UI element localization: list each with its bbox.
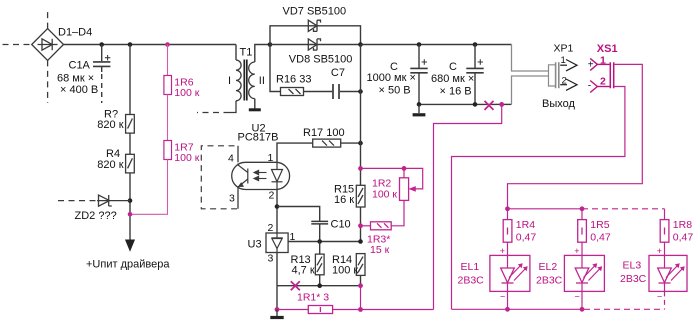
wire rectified rail to output [361, 44, 512, 46]
ground at U3 [276, 310, 278, 317]
wire secondary top lead [255, 45, 270, 63]
svg-text:+: + [500, 246, 505, 256]
svg-text:1: 1 [600, 54, 606, 66]
svg-text:100 к: 100 к [372, 189, 397, 201]
pin 1 XP1 [560, 60, 577, 71]
svg-text:2: 2 [269, 189, 275, 201]
wire magenta sense: XP1 minus to 1R1 line [434, 104, 502, 309]
node 1R2 tap (magenta) [358, 166, 363, 171]
wire R13 bottom lead [319, 275, 321, 286]
wire C10 bottom to junction line [319, 224, 321, 241]
resistor 1R6 [164, 76, 172, 95]
node secondary/VD junction [268, 42, 273, 47]
svg-text:D1–D4: D1–D4 [58, 27, 92, 39]
svg-text:1: 1 [290, 231, 296, 243]
node branch2 top [580, 206, 585, 211]
wire magenta down to 1R6 [167, 45, 169, 76]
U2 pin 1 lead to R17 [277, 143, 313, 162]
svg-text:VD8 SB5100: VD8 SB5100 [289, 54, 353, 66]
wire EL3 bottom dashed [664, 291, 666, 309]
wire R17 to main vertical [341, 142, 361, 144]
capacitor C1A [93, 45, 110, 104]
svg-text:2В3С: 2В3С [536, 275, 563, 287]
svg-text:2: 2 [600, 75, 606, 87]
pin 2 XP1 [560, 79, 577, 90]
U3 TL431 symbol [271, 233, 282, 253]
svg-text:1000 мк ×: 1000 мк × [367, 72, 416, 84]
node bottom cap1 [417, 102, 422, 107]
svg-text:1R1* 3: 1R1* 3 [297, 292, 329, 304]
wire U2pin2 to C10 [277, 207, 320, 222]
svg-text:R17 100: R17 100 [303, 127, 345, 139]
svg-text:680 мк ×: 680 мк × [431, 73, 474, 85]
svg-text:2В3С: 2В3С [620, 273, 647, 285]
LED module EL1 [490, 255, 530, 291]
wire 1R3 left to rail [361, 225, 371, 227]
svg-text:−: − [657, 292, 662, 302]
transformer T1 primary winding I [236, 60, 241, 101]
wire VD7 branch up and across [270, 26, 361, 45]
svg-text:+: + [574, 246, 579, 256]
wire 1R2 top lead [403, 168, 405, 177]
wire R14 bottom lead [360, 275, 362, 285]
U3 pin 3 lead down [276, 253, 278, 310]
U3 body [266, 233, 288, 253]
node branch1 bottom [505, 307, 510, 312]
svg-text:-: - [588, 80, 591, 91]
wire LED bottom bus solid [452, 308, 585, 310]
wire R? to R4 [129, 133, 131, 154]
bridge rectifier D1-D4 [32, 8, 64, 103]
svg-text:× 50 В: × 50 В [379, 85, 411, 97]
resistor R16 [281, 88, 304, 96]
arrow +U drive output [126, 240, 135, 250]
resistor 1R7 [164, 141, 172, 160]
node branch1 top [505, 206, 510, 211]
svg-text:+: + [657, 246, 662, 256]
svg-text:1: 1 [561, 55, 566, 66]
svg-text:× 400 В: × 400 В [60, 84, 98, 96]
svg-text:820 к: 820 к [97, 159, 123, 171]
svg-text:C1A: C1A [69, 60, 91, 72]
wire U3 ref line [288, 241, 360, 243]
svg-text:II: II [259, 75, 265, 87]
wire C7 to main vertical [340, 91, 361, 93]
resistor 1R4 [503, 209, 512, 256]
zener ZD2 [58, 195, 130, 206]
node junction C1A [99, 42, 104, 47]
node cap2 top [473, 42, 478, 47]
wire EL1 bottom [507, 291, 509, 309]
svg-text:1R5: 1R5 [590, 219, 609, 231]
LED module EL3 [649, 255, 687, 291]
node R17 right [358, 141, 363, 146]
node 1R6 top (magenta) [165, 42, 170, 47]
wire magenta R14 bottom to sense line [360, 286, 362, 310]
resistor R15 [356, 185, 365, 207]
resistor R14 [356, 254, 365, 276]
resistor R13 [315, 254, 324, 275]
wire R4 down to arrow [129, 173, 131, 241]
node C10/R13 junction [317, 239, 322, 244]
wire main vertical rail [360, 45, 362, 186]
svg-text:1R8: 1R8 [673, 219, 692, 231]
node 1R3 tap (magenta) [358, 223, 363, 228]
svg-text:EL1: EL1 [461, 261, 480, 273]
wire R16 to C7 [304, 91, 333, 93]
wire LED top bus solid [508, 208, 583, 210]
svg-text:100 к: 100 к [332, 264, 358, 276]
wire XS1 pin1 to LED top bus [508, 64, 643, 208]
svg-text:0,47: 0,47 [590, 231, 611, 243]
resistor 1R8 [660, 209, 669, 256]
U2 pin 3 lead [237, 190, 239, 209]
svg-text:100 к: 100 к [174, 87, 199, 99]
svg-text:XP1: XP1 [554, 43, 574, 55]
svg-text:Выход: Выход [542, 98, 575, 110]
transformer core [244, 60, 247, 101]
svg-text:T1: T1 [240, 47, 253, 59]
resistor R4 [126, 154, 135, 173]
node U3 ground (magenta) [275, 307, 280, 312]
potentiometer 1R2 [400, 178, 416, 201]
svg-text:1: 1 [268, 152, 274, 164]
capacitor C10 [311, 221, 328, 224]
node sense/R14 (magenta) [358, 307, 363, 312]
resistor 1R1* [308, 306, 332, 314]
svg-text:EL3: EL3 [623, 260, 642, 272]
svg-text:× 16 В: × 16 В [440, 86, 472, 98]
connector XS1 body bars [610, 62, 613, 88]
ground at filter [418, 104, 420, 113]
svg-text:2: 2 [268, 222, 274, 234]
svg-text:PC817B: PC817B [238, 132, 279, 144]
svg-text:ZD2 ???: ZD2 ??? [75, 210, 117, 222]
resistor R? [126, 115, 135, 134]
wire grey cable minus conductor [512, 76, 549, 104]
cut mark X on ground line [291, 281, 300, 290]
resistor 1R3* [371, 222, 392, 230]
wire secondary bottom lead [254, 99, 256, 109]
svg-text:3: 3 [268, 253, 274, 265]
wire snubber left leg [270, 45, 281, 92]
svg-text:−: − [500, 292, 505, 302]
node magenta tap on minus rail [499, 102, 504, 107]
wire LED top bus dashed [582, 208, 665, 210]
wire 1R2 bottom to 1R3 [391, 200, 404, 225]
node R14 bottom (magenta) [358, 283, 363, 288]
node snubber right [358, 89, 363, 94]
svg-text:4: 4 [228, 152, 234, 164]
svg-text:−: − [575, 292, 580, 302]
wire XS1 pin2 to LED bottom bus [452, 87, 625, 310]
capacitor C7 [333, 84, 339, 99]
svg-text:0,47: 0,47 [516, 231, 537, 243]
svg-text:C: C [449, 61, 457, 73]
wire from top node down to R? [129, 45, 131, 115]
node R14 top junction [358, 239, 363, 244]
resistor 1R5 [578, 209, 587, 256]
wire lower ground line [277, 285, 361, 287]
connector XS1 pin 1 fork [590, 58, 610, 70]
wire AC input dashed lead [3, 44, 32, 46]
wire top main line from bridge to transformer [64, 44, 237, 46]
wire EL2 bottom [581, 291, 583, 309]
transformer T1 secondary winding II [249, 62, 255, 99]
wire bottom rail [419, 103, 496, 105]
svg-text:XS1: XS1 [597, 43, 618, 55]
node branch2 bottom [580, 307, 585, 312]
svg-text:I: I [228, 75, 231, 87]
wire VD8 line [270, 44, 361, 46]
wire R15 bottom to junction [360, 207, 362, 242]
svg-text:15 к: 15 к [370, 244, 390, 256]
U2 phototransistor [238, 164, 248, 190]
U2 light arrows [254, 170, 267, 180]
svg-text:820 к: 820 к [97, 119, 123, 131]
diode VD7 schottky [308, 20, 320, 31]
resistor R17 [313, 139, 341, 147]
wire 1R7 down and left to main chain [130, 160, 168, 215]
ground under transformer [249, 108, 261, 111]
wire R13 top lead [319, 242, 321, 255]
LED module EL2 [564, 255, 604, 291]
svg-text:0,47: 0,47 [673, 231, 694, 243]
svg-text:1R4: 1R4 [516, 219, 535, 231]
svg-text:C10: C10 [331, 219, 351, 231]
node bottom cap2 [473, 102, 478, 107]
node junction R chain [128, 42, 133, 47]
node U2 pin2 junction [275, 204, 280, 209]
node magenta on chain [128, 212, 133, 217]
svg-text:C7: C7 [331, 67, 345, 79]
wire 1R6 to 1R7 [167, 95, 169, 141]
connector XP1 body [549, 62, 559, 88]
wire magenta to 1R2 [361, 168, 423, 189]
wire grey cable plus conductor [512, 45, 549, 72]
U2 pin 2 lead down [276, 190, 278, 234]
node 1R2 top [402, 166, 407, 171]
svg-text:16 к: 16 к [334, 194, 354, 206]
diode VD8 schottky [308, 39, 320, 50]
U2 pin 4 lead [237, 146, 239, 163]
svg-text:2В3С: 2В3С [458, 275, 485, 287]
U2 dashed external connection [201, 146, 237, 209]
svg-text:100 к: 100 к [174, 152, 199, 164]
U2 LED [272, 162, 283, 189]
svg-text:2: 2 [562, 76, 567, 87]
node ZD2 junction [128, 198, 133, 203]
optocoupler U2 body [232, 162, 290, 189]
svg-text:4,7 к: 4,7 к [292, 264, 315, 276]
svg-text:VD7 SB5100: VD7 SB5100 [283, 6, 347, 18]
wire primary bottom lead with dashed continuation [230, 101, 237, 113]
svg-text:U3: U3 [248, 239, 262, 251]
svg-text:R16 33: R16 33 [276, 74, 311, 86]
capacitor C 1000mk [410, 45, 427, 105]
svg-text:3: 3 [229, 192, 235, 204]
capacitor C 680mk [466, 45, 483, 105]
svg-text:+Uпит драйвера: +Uпит драйвера [86, 259, 170, 271]
node VD right junction [358, 42, 363, 47]
wire primary top lead [235, 45, 237, 61]
wire sense line [277, 309, 434, 311]
connector XS1 pin 2 fork [590, 81, 610, 93]
wire LED bottom bus dashed [584, 308, 665, 310]
node cap1 top [417, 42, 422, 47]
svg-text:EL2: EL2 [539, 261, 558, 273]
node R13 bottom [317, 283, 322, 288]
cut mark X on minus rail [485, 101, 494, 110]
